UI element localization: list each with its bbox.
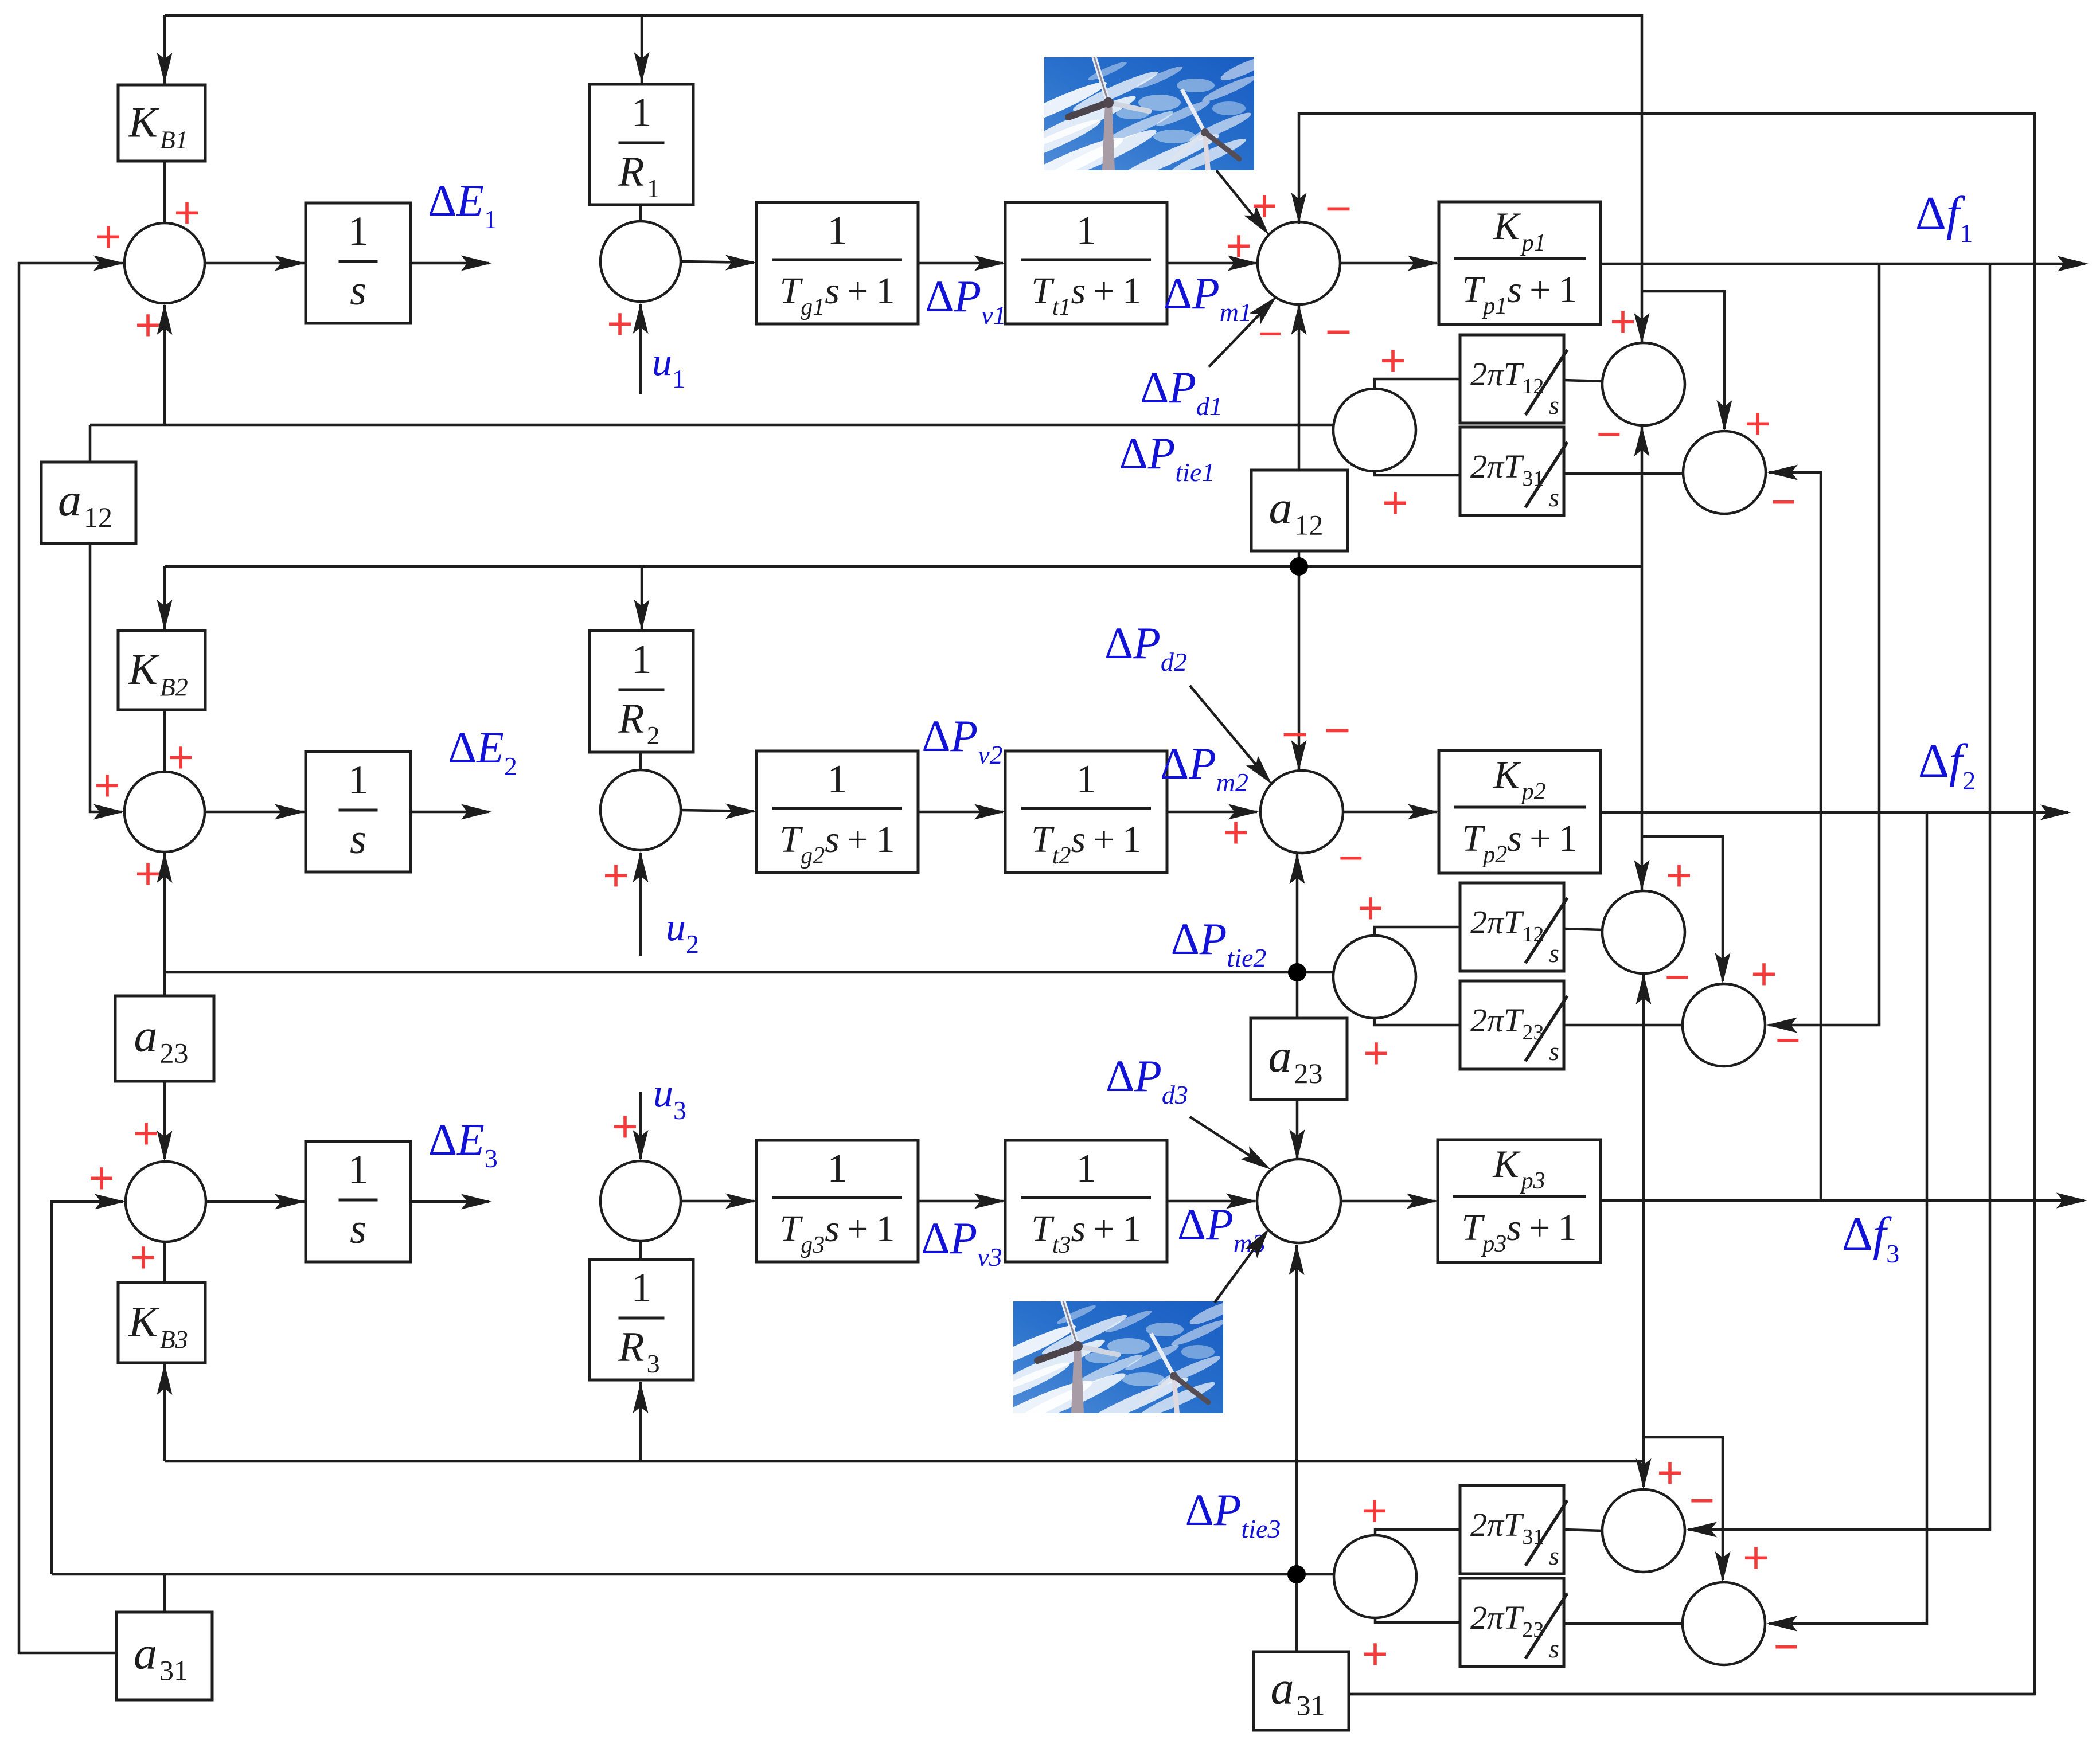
- svg-text:1: 1: [1076, 757, 1096, 801]
- wire integrator output stub: [411, 262, 489, 265]
- block Tg3 governor/turbine 1/(Tg3s+1): [756, 1140, 918, 1262]
- wire DeltaPtie1 down to a12-left: [89, 425, 92, 462]
- summing junction T1 (tie-line 1): [1333, 389, 1416, 471]
- svg-text:1: 1: [827, 209, 848, 253]
- svg-text:+: +: [1380, 335, 1406, 386]
- wire Tg3 to Tt3: [918, 1200, 1003, 1203]
- wire DeltaPtie1 up into S1 bottom: [163, 305, 166, 425]
- wire Delta-f1 into D right: [1769, 264, 1879, 1025]
- svg-text:−: −: [1774, 1622, 1799, 1671]
- svg-text:+: +: [1357, 883, 1384, 933]
- svg-text:+: +: [1744, 398, 1771, 449]
- summing junction C (df2-df3): [1602, 891, 1685, 973]
- svg-text:+: +: [135, 848, 161, 899]
- summing junction G2: [600, 770, 681, 850]
- svg-text:+: +: [88, 1153, 115, 1203]
- wire S1 to integrator: [205, 262, 305, 265]
- wire 2piT12 out to A: [1564, 380, 1603, 381]
- wire 1/R2 to G2: [639, 752, 642, 770]
- wire DeltaPtie2 up into S2 bottom: [163, 853, 166, 972]
- block a31-right ratio a31: [1254, 1652, 1349, 1730]
- wire wind photo arrow into M1: [1216, 170, 1265, 230]
- svg-text:1: 1: [631, 636, 652, 682]
- svg-text:+: +: [603, 850, 629, 901]
- wire G3 bottom to 1/R3 top: [639, 1241, 642, 1260]
- svg-text:+: +: [94, 760, 120, 811]
- wire DeltaPtie3 down to a31-left: [163, 1574, 166, 1612]
- wire KB2 to S2: [163, 710, 166, 772]
- summing junction G1 (governor input): [600, 221, 681, 302]
- wire u2 into G2: [639, 853, 642, 956]
- wire T1 top elbow to 2piT12: [1375, 379, 1460, 389]
- svg-text:+: +: [95, 212, 122, 262]
- wire 2piT23-r2 out to D: [1564, 1024, 1683, 1027]
- block Tt1 governor/turbine 1/(Tt1s+1): [1005, 202, 1167, 324]
- block 2piT12-r2 tie-line 2piT12/s: [1460, 883, 1564, 971]
- wire Delta-f2 feedback line y=988: [165, 565, 1642, 568]
- block 1/R2 droop 1/R2: [590, 631, 693, 752]
- summing junction T3 (tie-line 3): [1334, 1535, 1416, 1618]
- wire DeltaPtie3 up into M3 bottom and down to a31-right: [1295, 1245, 1298, 1574]
- wire M2 to Kp2: [1343, 811, 1437, 814]
- wire T3 top elbow to 2piT31-r3: [1375, 1530, 1460, 1535]
- wire M3 to Kp3: [1341, 1200, 1435, 1203]
- svg-text:1: 1: [631, 89, 652, 135]
- junction dot tie2: [1288, 963, 1306, 981]
- svg-text:−: −: [1689, 1476, 1715, 1525]
- svg-text:+: +: [1382, 478, 1408, 528]
- svg-text:+: +: [1743, 1532, 1769, 1583]
- wire DeltaPd2 arrow into M2: [1190, 686, 1268, 780]
- summing junction M3: [1257, 1159, 1341, 1243]
- svg-text:+: +: [612, 1101, 638, 1152]
- block 2piT12-r1 tie-line 2piT12/s: [1460, 335, 1564, 423]
- svg-text:s: s: [1549, 1634, 1559, 1663]
- wire DeltaPtie2 into M2 bottom and a23-right: [1296, 854, 1299, 972]
- svg-text:−: −: [1771, 478, 1796, 526]
- junction dot tie3: [1287, 1565, 1306, 1583]
- wire T2 bottom elbow to 2piT23-r2: [1375, 1018, 1460, 1025]
- block a12-left ratio a12: [41, 462, 136, 543]
- block a23-left ratio a23: [115, 996, 214, 1081]
- svg-text:+: +: [607, 299, 633, 349]
- block Kp3 power system Kp3/(Tp3s+1): [1438, 1140, 1601, 1262]
- svg-text:s: s: [1549, 1541, 1559, 1570]
- svg-text:−: −: [1282, 709, 1309, 760]
- summing junction E (df3-df1): [1602, 1489, 1685, 1572]
- wire wind photo 2 arrow into M3: [1215, 1233, 1266, 1303]
- wire rise to 1/R3: [639, 1382, 642, 1461]
- svg-text:+: +: [1751, 949, 1777, 999]
- svg-text:1: 1: [827, 757, 848, 801]
- wire G3 to Tg3: [681, 1200, 754, 1203]
- wire Delta-f3 up into C bottom: [1642, 973, 1645, 1200]
- svg-text:+: +: [1223, 807, 1249, 858]
- svg-text:s: s: [1549, 1037, 1559, 1066]
- svg-text:1: 1: [348, 757, 369, 803]
- block KB2 frequency bias K_B2: [118, 631, 205, 710]
- wire Tt2 to M2: [1167, 811, 1257, 814]
- svg-text:+: +: [167, 732, 194, 783]
- wire elbow Delta-f2 to D top: [1642, 836, 1723, 981]
- summing junction D (df2-df1): [1683, 984, 1765, 1066]
- block 1/s-2 1/s integrator: [306, 752, 411, 872]
- block a23-right ratio a23: [1251, 1018, 1347, 1100]
- summing junction M2: [1260, 771, 1343, 853]
- summing junction A (df1-df2): [1602, 343, 1685, 425]
- svg-text:s: s: [350, 267, 366, 314]
- block 2piT31-r1 tie-line 2piT31/s: [1460, 427, 1564, 515]
- wire Delta-f1 into E right: [1688, 264, 1990, 1530]
- wire integrator 2 output stub: [411, 811, 489, 814]
- block Tt3 governor/turbine 1/(Tt3s+1): [1005, 1140, 1167, 1262]
- summing junction B (df1-df3): [1683, 431, 1766, 514]
- wire Delta-f2 output line: [1601, 811, 2068, 814]
- wire KB1 to S1: [163, 161, 166, 223]
- wire drop to KB2: [163, 566, 166, 631]
- svg-text:1: 1: [631, 1265, 652, 1311]
- svg-text:−: −: [1597, 410, 1622, 459]
- svg-text:+: +: [130, 1232, 157, 1282]
- wire DeltaPtie3 into S3 left: [52, 1202, 123, 1574]
- wire DeltaPtie2 line: [165, 971, 1334, 974]
- wire a23-left output to S3 top: [163, 1081, 166, 1159]
- wire Tt3 to M3: [1167, 1200, 1255, 1203]
- wire DeltaPd1 arrow into M1: [1209, 301, 1273, 367]
- block 1/R1 droop 1/R1: [590, 84, 693, 205]
- wire Delta-f2 up into A bottom / down to C top: [1641, 425, 1644, 890]
- wire drop to 1/R2: [641, 566, 643, 631]
- junction dot a12/Delta-f2 line: [1290, 557, 1308, 576]
- wire T3 bottom elbow to 2piT23-r3: [1375, 1617, 1460, 1622]
- wire elbow Delta-f1 to B top: [1642, 291, 1724, 429]
- summing junction F (df3-df2): [1683, 1582, 1765, 1665]
- block 1/s-1 1/s integrator: [306, 203, 411, 323]
- wire Delta-f3 into B right: [1769, 472, 1821, 1200]
- svg-text:−: −: [1665, 953, 1690, 1002]
- block Tg2 governor/turbine 1/(Tg2s+1): [756, 751, 918, 873]
- svg-text:s: s: [1549, 938, 1559, 968]
- wire Delta-f1 down into A top: [1634, 313, 1650, 344]
- wire 1/R1 to G1: [639, 205, 642, 221]
- svg-text:1: 1: [1076, 1147, 1096, 1191]
- wire 2piT31 out to B: [1564, 472, 1683, 475]
- svg-text:1: 1: [348, 1147, 369, 1192]
- svg-text:−: −: [1775, 1016, 1801, 1065]
- wire a31-right output to the right riser: [1349, 1693, 2035, 1696]
- block a31-left ratio a31: [116, 1612, 212, 1700]
- wire y=198 feedback (a31 path) into area-1 sum top: [1299, 114, 2035, 1694]
- wire G2 to Tg2: [681, 810, 754, 811]
- wire S3 to integrator: [206, 1200, 305, 1203]
- wire T2 top elbow to 2piT12-r2: [1375, 927, 1460, 936]
- block 2piT23-r3 tie-line 2piT23/s: [1460, 1578, 1564, 1667]
- svg-text:+: +: [1666, 850, 1692, 901]
- svg-text:+: +: [174, 187, 200, 238]
- svg-text:+: +: [1225, 221, 1252, 271]
- svg-text:+: +: [1362, 1629, 1388, 1679]
- summing junction M1 (power balance area 1): [1258, 222, 1340, 304]
- wire G1 to Tg1: [681, 261, 754, 263]
- wire KB3 to S3 bottom: [163, 1242, 166, 1282]
- wire DeltaPtie1 branch into M1 bottom and a12-right: [1298, 305, 1301, 425]
- summing junction G3: [600, 1161, 681, 1241]
- svg-text:s: s: [1549, 390, 1559, 420]
- wire integrator 3 output stub: [411, 1200, 489, 1203]
- wire Tt1 to main sum M1: [1167, 262, 1256, 265]
- block a12-right ratio a12: [1251, 470, 1348, 551]
- block KB3 frequency bias K_B3: [118, 1282, 205, 1363]
- svg-text:1: 1: [1076, 209, 1096, 253]
- wire rise to KB3: [163, 1364, 166, 1461]
- wire a12-left output to S2 left: [90, 543, 122, 812]
- wire Delta-f3 feedback line y=2549: [165, 1460, 1642, 1463]
- svg-text:−: −: [1338, 834, 1364, 882]
- block 2piT31-r3 tie-line 2piT31/s: [1460, 1485, 1564, 1574]
- svg-text:−: −: [1325, 183, 1352, 234]
- summing junction T2 (tie-line 2): [1333, 936, 1416, 1018]
- block Tg1 governor/turbine 1/(Tg1s+1): [756, 202, 918, 324]
- svg-text:−: −: [1325, 306, 1352, 357]
- wire Delta-f1 output line: [1601, 263, 2085, 265]
- wire Delta-f3 down into E top with elbow to F: [1642, 1200, 1645, 1487]
- svg-text:−: −: [1258, 310, 1282, 357]
- wire Delta-f1 top feedback line y=27: [165, 15, 1642, 344]
- svg-text:1: 1: [348, 208, 369, 254]
- wire u1 into G1: [639, 304, 642, 394]
- block KB1 frequency bias K_B1: [118, 85, 205, 161]
- svg-text:+: +: [1251, 181, 1278, 231]
- block Kp2 power system Kp2/(Tp2s+1): [1439, 750, 1601, 873]
- wire DeltaPtie3 line: [52, 1573, 1334, 1576]
- wire Delta-f3 output line: [1601, 1199, 2084, 1202]
- svg-text:+: +: [133, 1108, 159, 1159]
- wire a23-right down to M3 top: [1296, 1100, 1299, 1158]
- svg-text:+: +: [1363, 1028, 1389, 1078]
- wire drop to 1/R1: [641, 15, 643, 83]
- wire DeltaPtie1 line: [90, 424, 1333, 427]
- svg-text:1: 1: [827, 1147, 848, 1191]
- svg-text:+: +: [135, 300, 161, 350]
- wire Tg2 to Tt2: [918, 811, 1003, 814]
- block 2piT23-r2 tie-line 2piT23/s: [1460, 981, 1564, 1069]
- wire T1 bottom elbow to 2piT31: [1375, 471, 1460, 475]
- svg-text:s: s: [350, 816, 366, 863]
- wire DeltaPd3 arrow into M3: [1190, 1117, 1267, 1167]
- wire Delta-f2 into F right: [1769, 812, 1927, 1624]
- block Tt2 governor/turbine 1/(Tt2s+1): [1005, 751, 1167, 873]
- svg-text:s: s: [1549, 483, 1559, 512]
- wire a12-right down to M2 top: [1298, 551, 1301, 769]
- block 1/R3 droop 1/R3: [590, 1260, 693, 1380]
- svg-text:+: +: [1610, 296, 1636, 347]
- wire u3 into G3 top: [639, 1092, 642, 1159]
- wire M1 to Kp1: [1340, 262, 1437, 265]
- wire S2 to integrator: [205, 811, 305, 814]
- block 1/s-3 1/s integrator: [306, 1141, 411, 1262]
- summing junction S2 (ACE2): [124, 772, 205, 852]
- wire 2piT31-r3 out to E: [1564, 1530, 1603, 1531]
- wire 2piT12-r2 out to C: [1564, 929, 1603, 930]
- svg-text:+: +: [1361, 1485, 1388, 1536]
- svg-text:s: s: [350, 1206, 366, 1253]
- wire Tg1 to Tt1: [918, 262, 1003, 265]
- svg-text:+: +: [1657, 1448, 1683, 1498]
- svg-text:−: −: [1324, 705, 1351, 756]
- summing junction S3 (ACE3): [126, 1162, 206, 1242]
- wire drop to KB1: [163, 15, 166, 84]
- wire DeltaPtie2 down to a23-left: [163, 972, 166, 996]
- block Kp1 power system Kp1/(Tp1s+1): [1439, 202, 1601, 324]
- summing junction S1 (ACE1): [124, 223, 205, 303]
- wire 2piT23-r3 out to F: [1564, 1622, 1683, 1625]
- wire a31 feedback into S1 left: [19, 263, 123, 1653]
